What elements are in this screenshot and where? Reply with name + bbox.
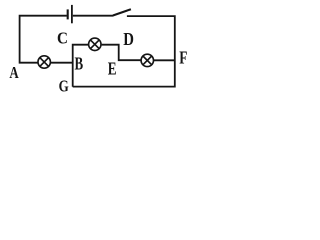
wire: top wire, left vertical, A-row to lamp L1 [20,16,67,63]
battery cell: long (positive) plate [71,5,73,23]
wire: lamp L3 to right vertical (F) [154,59,175,61]
lamp L2 (circle with X) [89,38,101,50]
wire: battery to switch [73,15,114,17]
svg-text:B: B [75,54,84,74]
wire: lamp L2 to D corner, D vertical, E-row to lamp L3 [102,45,141,61]
lamp L3 (circle with X) [141,54,153,66]
wire: switch contact, top-right corner, right vertical, bottom G-row [73,16,175,87]
svg-text:C: C [57,30,68,48]
battery cell: short (negative) plate [67,9,69,19]
svg-text:A: A [9,64,18,82]
svg-text:F: F [179,49,187,68]
svg-text:E: E [108,60,117,79]
svg-text:G: G [59,78,70,96]
svg-text:D: D [123,30,134,49]
wire: lamp L1 to node B [51,62,73,64]
wire: B vertical and C-row to lamp L2 [73,45,88,87]
switch blade (open) [113,9,131,15]
lamp L1 (circle with X) [38,56,50,68]
